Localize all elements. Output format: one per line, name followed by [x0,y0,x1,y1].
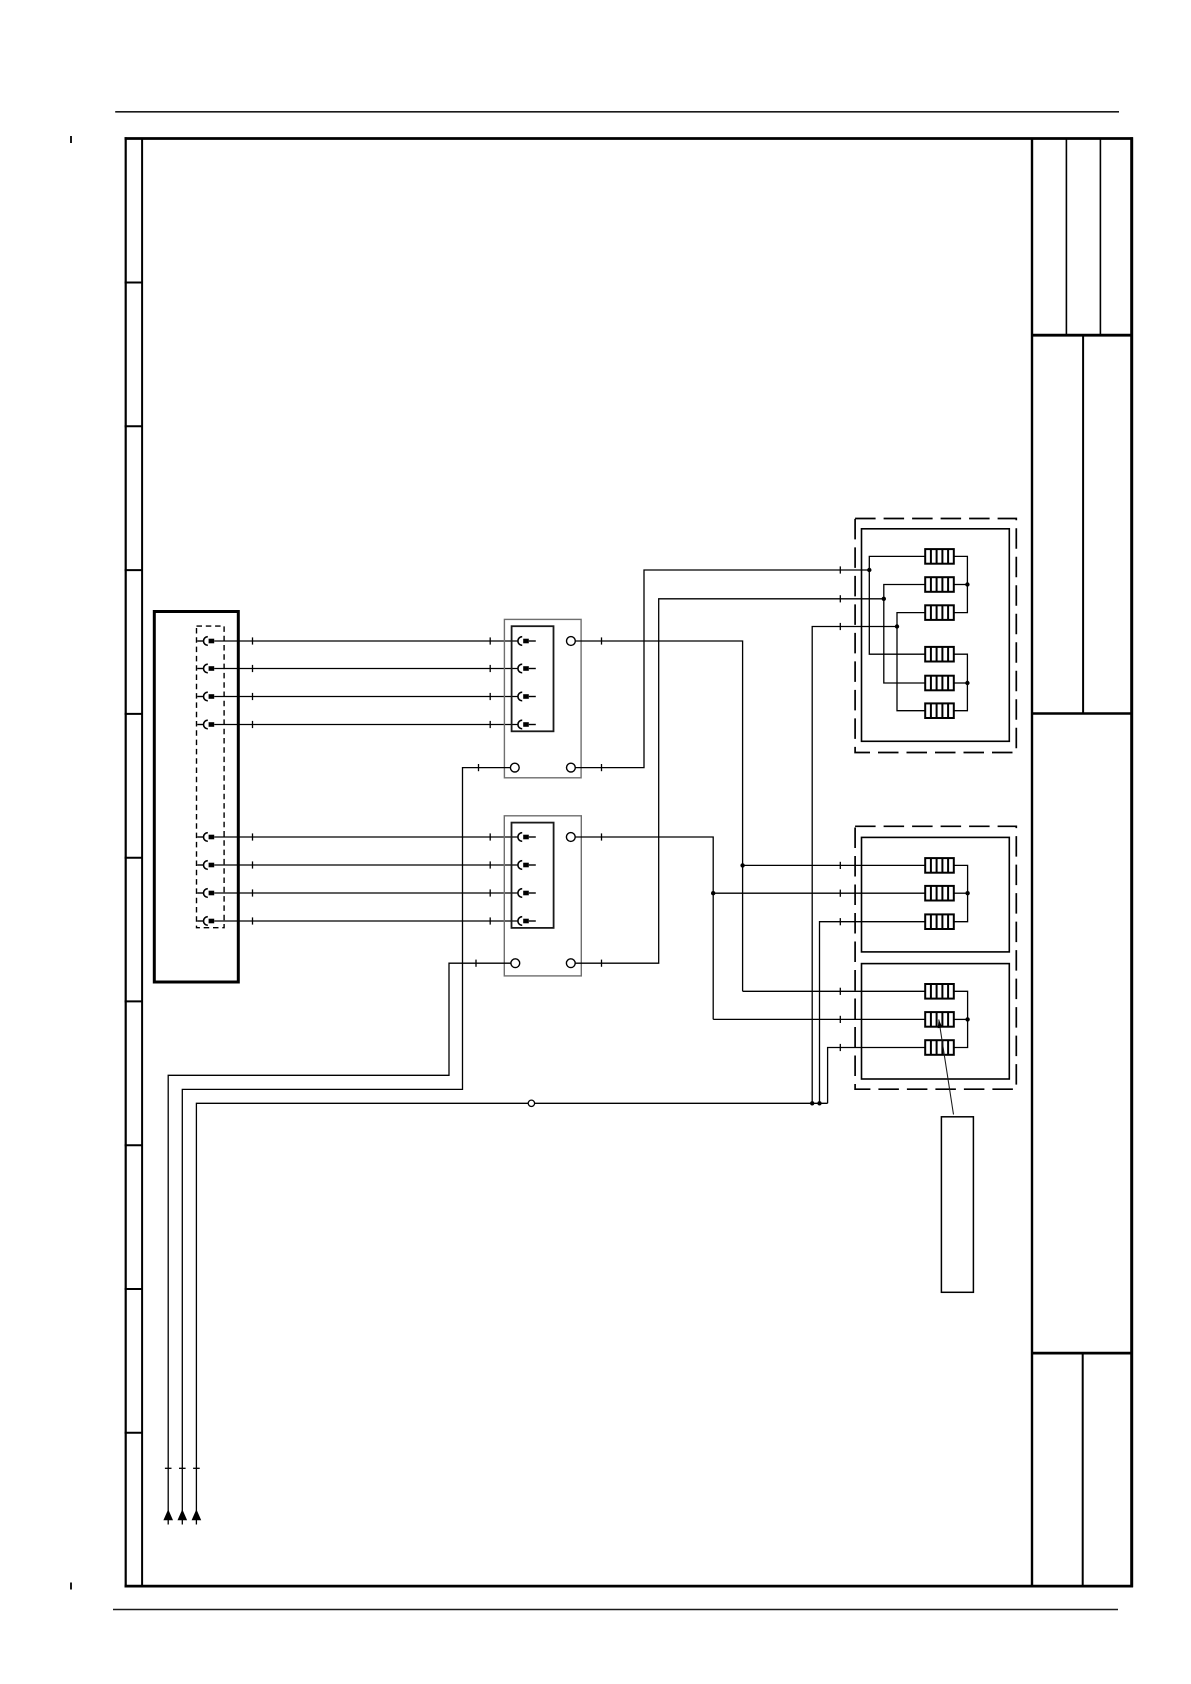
bottom rule line [113,1609,1118,1611]
arrow down-lead 1 [164,1510,172,1520]
wire E2 wire 3 vertical from net C [820,918,926,1103]
drawing frame border [125,137,1134,1587]
terminal X1:4 [197,720,214,729]
net C horizontal wire [193,1103,828,1524]
wire X2 top-right to heater bank E1 phase line [575,637,742,991]
wire X1:5 to X3:1 [214,833,518,840]
heater element E1.1 [925,549,954,564]
terminal X1:6 [197,861,214,870]
heater element E1.5 [925,676,954,691]
arrow down-lead 3 [192,1510,200,1520]
terminal X1:7 [197,889,214,898]
terminal block X1 dashed outline [197,626,225,928]
centering mark top-left [70,136,72,143]
E1 star junction dots [965,582,969,586]
wire E1 wire 3 vertical from net C [812,623,897,1103]
connector X3 pin 2 [518,861,536,870]
wire X1:3 to X2:3 [214,693,518,700]
terminal block X1 [154,612,238,983]
E1 internal wiring right / star points [954,556,968,710]
connector X3 pin 4 [518,917,536,926]
connector X3 outer body [504,816,581,976]
E1 internal wiring left [869,556,925,710]
wire E2 wire 2 branch [713,890,925,897]
wire X2 bottom-left down-left [179,764,510,1525]
connector X2 bottom-left socket [510,763,519,772]
heater element E1.3 [925,605,954,620]
heater element E2.2 [925,886,954,901]
net C junction dots [810,1101,814,1105]
E2 star junction dot [965,891,969,895]
leader arrowhead [938,1019,943,1028]
heater element E3.3 [925,1040,954,1055]
connector X2 pin 4 [518,720,536,729]
wire X1:1 to X2:1 [214,637,518,644]
left strip dividers [125,283,143,1433]
heater bank E1 dashed enclosure [855,519,1016,753]
terminal X1:8 [197,917,214,926]
heater element E1.2 [925,577,954,592]
connector X3 pin 1 [518,833,536,842]
heater element E1.6 [925,703,954,718]
title block column [1032,139,1132,1587]
connector X3 bottom-right socket [566,959,575,968]
junction dot E1 wire3 [895,624,899,628]
heater element E1.4 [925,647,954,662]
connector X2 bottom-right socket [567,763,576,772]
wire X2 bottom-right up to E1 wire 1 [575,566,869,771]
connector X3 bottom-left socket [511,959,520,968]
wire E3 wire 3 from net C [828,1044,926,1103]
connector X3 inner body [512,823,554,928]
leader line from E3.2 to label box [939,1020,954,1115]
connector X2 pin 2 [518,664,536,673]
label box [941,1117,973,1293]
wire E3 wire 2 [713,1016,925,1023]
wire X1:4 to X2:4 [214,721,518,728]
terminal X1:2 [197,664,214,673]
wire X3 bottom-left down-left [165,960,511,1525]
wire X1:7 to X3:3 [214,889,518,896]
junction dot E1 wire2 [882,597,886,601]
heater bank E2 body [862,837,1010,952]
E2 star point wiring [954,865,968,921]
connector X2 pin 1 [518,637,536,646]
wire X1:2 to X2:2 [214,665,518,672]
terminal X1:3 [197,692,214,701]
junction dot E1 wire1 [867,568,871,572]
terminal X1:1 [197,637,214,646]
wire X1:6 to X3:2 [214,861,518,868]
connector X2 top-right socket [567,637,576,646]
wire E3 wire 1 [743,988,926,995]
heater bank E3 body [862,964,1010,1079]
heater element E3.2 [925,1012,954,1027]
arrow down-lead 2 [178,1510,186,1520]
connector X3 top-right socket [566,833,575,842]
junction dot E2 wire1 [740,863,744,867]
wire X3 bottom-right up to E1 wire 2 [575,595,884,967]
connector X2 pin 3 [518,692,536,701]
connector X2 inner body [512,626,554,731]
heater bank E2/E3 dashed enclosure [855,826,1016,1089]
E3 star point wiring [954,991,968,1047]
heater bank E1 body [862,529,1010,742]
E3 star junction dot [965,1017,969,1021]
heater element E2.1 [925,858,954,873]
wire E2 wire 1 branch [743,862,926,869]
connector X3 pin 3 [518,889,536,898]
wire X3 top-right to heater bank lines [575,833,713,1019]
top rule line [115,111,1119,113]
heater element E2.3 [925,914,954,929]
centering mark bottom-left [70,1583,72,1590]
heater element E3.1 [925,984,954,999]
wire X1:8 to X3:4 [214,917,518,924]
left margin strip [141,139,143,1587]
net C connection point circle [528,1100,534,1106]
junction dot E2 wire2 [711,891,715,895]
connector X2 outer body [504,619,581,777]
terminal X1:5 [197,833,214,842]
